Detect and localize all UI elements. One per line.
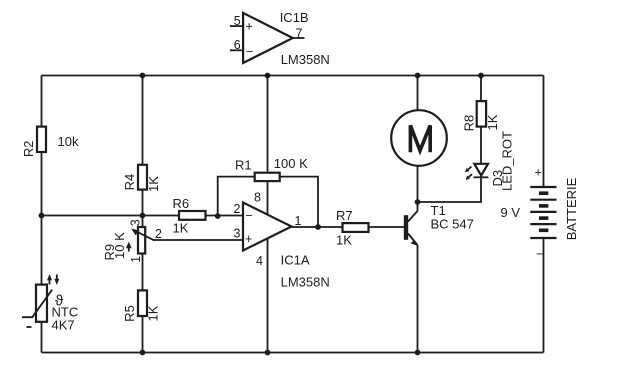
short plate 1 — [539, 191, 549, 195]
down arrow — [56, 274, 58, 281]
wire emitter to bottom rail — [417, 245, 419, 353]
node bottom rail / R5 — [140, 350, 146, 356]
wire top rail — [42, 75, 544, 77]
svg-text:R4: R4 — [122, 174, 137, 191]
svg-text:IC1B: IC1B — [280, 10, 309, 25]
node bottom rail / supply — [265, 350, 271, 356]
wire bottom rail — [42, 352, 544, 354]
wire right branch (battery top) — [543, 76, 545, 188]
svg-text:100 K: 100 K — [274, 156, 308, 171]
svg-text:1K: 1K — [146, 176, 161, 192]
thermistor NTC 4K7 — [22, 274, 78, 333]
svg-text:−: − — [536, 247, 543, 261]
transistor T1 — [406, 202, 474, 246]
svg-text:7: 7 — [296, 26, 303, 40]
svg-text:LED_ROT: LED_ROT — [500, 131, 515, 191]
wire motor to collector node — [417, 166, 419, 203]
battery 9V — [501, 166, 579, 262]
svg-text:6: 6 — [234, 38, 241, 52]
svg-text:1: 1 — [295, 214, 302, 228]
svg-text:2: 2 — [155, 227, 162, 241]
node top rail / supply — [265, 73, 271, 79]
long plate 4 — [530, 223, 556, 225]
resistor R2 — [21, 127, 79, 158]
resistor R7 — [336, 208, 369, 248]
potentiometer R9 — [102, 219, 162, 263]
node top rail / motor — [415, 73, 421, 79]
wire right branch (battery bottom) — [543, 239, 545, 353]
svg-text:1K: 1K — [336, 233, 352, 248]
wire motor branch (top) — [417, 76, 419, 112]
wire R4/R9/R5 branch — [142, 76, 144, 353]
emission arrow 2 — [469, 174, 472, 177]
base bar — [404, 215, 408, 240]
up arrow — [49, 278, 51, 285]
wire feedback loop — [218, 177, 318, 227]
adjust arrow — [128, 245, 130, 252]
svg-text:4K7: 4K7 — [52, 318, 75, 333]
wire R8/LED branch — [418, 76, 482, 203]
wire op-amp supply — [267, 76, 269, 353]
svg-text:R6: R6 — [173, 196, 190, 211]
svg-text:R8: R8 — [461, 115, 476, 132]
svg-text:BC 547: BC 547 — [431, 216, 474, 231]
resistor R1 — [235, 156, 308, 181]
op-amp IC1A — [234, 191, 330, 290]
short plate 3 — [539, 216, 549, 220]
pin 7 stub — [293, 37, 305, 39]
LED D3 — [465, 131, 515, 191]
svg-text:+: + — [535, 166, 542, 180]
long plate 1 — [530, 186, 556, 188]
long plate 3 — [530, 211, 556, 213]
wiper arm — [135, 231, 155, 241]
pin 6 stub — [230, 49, 243, 51]
svg-text:1K: 1K — [146, 305, 161, 321]
resistor R4 — [122, 165, 161, 192]
svg-text:IC1A: IC1A — [281, 253, 310, 268]
svg-text:9 V: 9 V — [501, 205, 521, 220]
wire op-amp output to base — [292, 226, 405, 228]
emitter — [408, 234, 418, 246]
node feedback / output — [315, 224, 321, 230]
svg-text:−: − — [246, 209, 253, 223]
short plate 2 — [539, 204, 549, 208]
wire left branch — [41, 76, 43, 353]
svg-text:R2: R2 — [21, 140, 36, 157]
svg-text:3: 3 — [129, 219, 143, 226]
svg-text:R7: R7 — [336, 208, 353, 223]
node mid rail / left — [39, 213, 45, 219]
node bottom rail / emitter — [415, 350, 421, 356]
node collector / LED — [415, 199, 421, 205]
emission arrow 1 — [468, 167, 471, 170]
svg-text:3: 3 — [234, 227, 241, 241]
svg-text:1K: 1K — [173, 221, 189, 236]
wire R9 wiper to pin 3 — [154, 239, 244, 241]
short plate 4 — [539, 229, 549, 233]
motor M1 — [391, 110, 447, 166]
long plate 2 — [530, 199, 556, 201]
minus mark — [26, 326, 31, 328]
node top rail / R8 — [478, 73, 484, 79]
svg-text:10k: 10k — [58, 134, 79, 149]
long plate 5 — [530, 237, 556, 239]
svg-text:R1: R1 — [235, 157, 252, 172]
svg-text:2: 2 — [234, 202, 241, 216]
svg-text:5: 5 — [234, 14, 241, 28]
svg-text:LM358N: LM358N — [281, 52, 330, 67]
op-amp IC1B — [230, 10, 330, 67]
svg-text:+: + — [246, 20, 253, 34]
svg-text:4: 4 — [256, 254, 263, 268]
node feedback / pin2 — [215, 213, 221, 219]
node mid rail / R4 R9 — [140, 213, 146, 219]
svg-text:1: 1 — [129, 256, 143, 263]
resistor R5 — [122, 290, 161, 321]
svg-text:LM358N: LM358N — [281, 275, 330, 290]
svg-text:1K: 1K — [485, 114, 500, 130]
svg-text:+: + — [245, 232, 252, 246]
resistor R8 — [461, 101, 500, 131]
svg-text:BATTERIE: BATTERIE — [564, 177, 579, 240]
svg-text:−: − — [246, 45, 253, 59]
wire mid rail — [42, 215, 244, 217]
svg-text:10 K: 10 K — [112, 232, 127, 259]
svg-text:R5: R5 — [122, 305, 137, 322]
resistor R6 — [173, 196, 206, 236]
collector — [408, 202, 418, 222]
svg-text:8: 8 — [254, 191, 261, 205]
pin 5 stub — [230, 25, 243, 27]
node top rail / R4 — [140, 73, 146, 79]
